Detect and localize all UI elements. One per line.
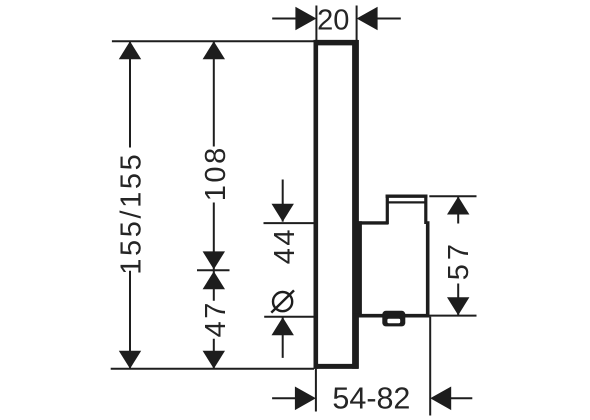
svg-text:155/155: 155/155 bbox=[116, 152, 148, 275]
svg-text:108: 108 bbox=[200, 145, 232, 201]
svg-text:54-82: 54-82 bbox=[332, 381, 410, 415]
svg-text:44: 44 bbox=[269, 227, 301, 264]
svg-text:57: 57 bbox=[443, 240, 475, 280]
svg-text:20: 20 bbox=[317, 5, 349, 37]
svg-text:47: 47 bbox=[200, 300, 232, 337]
